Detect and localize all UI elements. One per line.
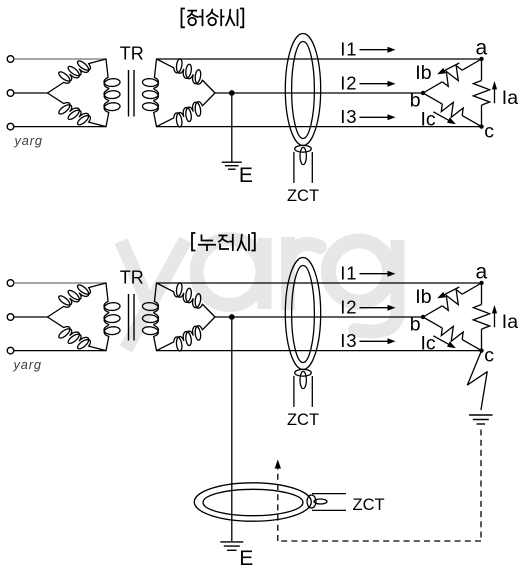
- svg-text:TR: TR: [120, 267, 144, 287]
- svg-text:c: c: [484, 121, 494, 143]
- svg-text:a: a: [476, 260, 488, 283]
- svg-text:E: E: [239, 164, 253, 187]
- svg-text:c: c: [484, 345, 494, 367]
- svg-text:a: a: [476, 36, 488, 59]
- svg-text:I3: I3: [340, 106, 357, 127]
- svg-text:I1: I1: [340, 263, 357, 284]
- svg-text:b: b: [410, 314, 421, 336]
- svg-text:I3: I3: [340, 330, 357, 351]
- svg-text:E: E: [239, 547, 253, 570]
- svg-text:Ic: Ic: [421, 333, 436, 355]
- svg-text:Ib: Ib: [415, 62, 431, 84]
- svg-text:Ia: Ia: [502, 311, 518, 333]
- svg-text:Ia: Ia: [502, 87, 518, 109]
- svg-text:ZCT: ZCT: [287, 411, 319, 429]
- svg-text:yarg: yarg: [13, 357, 42, 372]
- svg-text:b: b: [410, 90, 421, 112]
- svg-text:I1: I1: [340, 39, 357, 60]
- svg-text:I2: I2: [340, 297, 357, 318]
- svg-text:I2: I2: [340, 73, 357, 94]
- svg-text:ZCT: ZCT: [353, 496, 385, 514]
- svg-text:TR: TR: [120, 43, 144, 63]
- svg-text:yarg: yarg: [14, 133, 43, 148]
- svg-text:Ib: Ib: [415, 286, 431, 308]
- svg-text:Ic: Ic: [421, 109, 436, 131]
- svg-text:ZCT: ZCT: [287, 187, 319, 205]
